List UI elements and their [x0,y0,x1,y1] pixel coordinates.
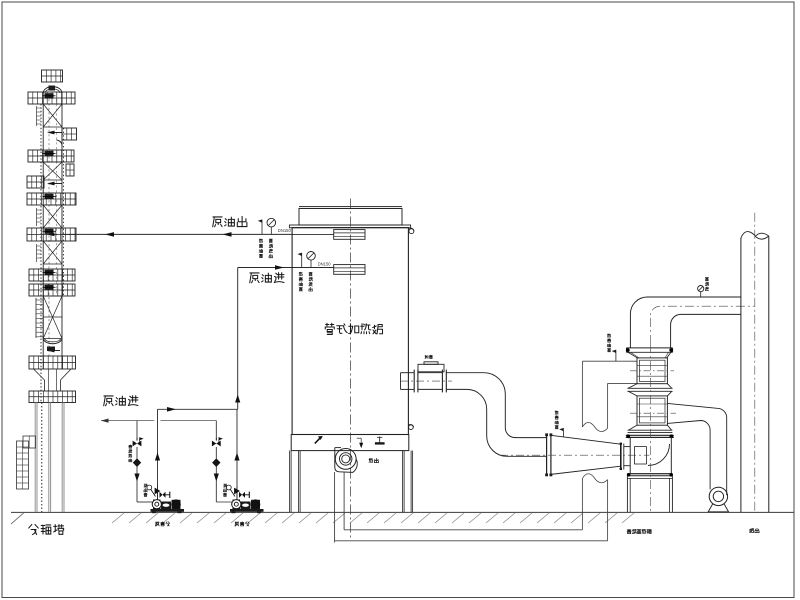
nozzle elbow hook [57,140,63,147]
pump1 discharge up arrow [155,453,160,461]
thermocouple flag on crude inlet [301,253,303,268]
column platform 3 [27,193,76,205]
flue duct horizontal centerline [500,454,650,456]
vertical tag text thermometer [269,239,272,242]
flue duct S-bend outer wall [446,373,546,438]
column ladder rungs upper [36,106,38,126]
column platform 4 [27,228,76,241]
column x-brace section 1 [43,103,62,105]
preheater upper box centerline [630,370,674,372]
temperature gauge on crude outlet [267,218,276,227]
flue duct inlet flange at preheater [620,444,622,470]
svg-text:DN150: DN150 [318,261,332,266]
pump2 suction strainer [212,458,220,467]
column ladder rungs middle [36,208,38,226]
preheater middle flange band [628,384,637,389]
furnace top flange band [289,225,410,228]
tube coil header box lower [334,265,365,275]
furnace body shell [292,228,408,435]
vertical tag text thermometer 2 [309,272,312,275]
flue duct transition flange [546,435,548,475]
base small box [23,436,36,448]
preheater upper element box [637,358,667,384]
pump1 suction drop pipe [136,421,138,441]
column platform 2 [28,150,74,162]
nozzle valve on platform 5b [45,285,54,290]
vertical tag text hot air [607,334,610,337]
vertical tag text at pump2 discharge [223,484,226,487]
vertical tag text at valve1 [129,445,132,448]
vertical tag text thermocouple 2 [299,272,303,276]
column skirt transition [34,369,45,380]
small right attachment box [66,164,74,176]
valve tag flag pump2 [219,437,223,440]
vertical tag text thermocouple [259,239,263,243]
label yan-cong chimney [750,529,754,533]
column platform 5b [29,284,75,296]
temperature gauge on flue to chimney [698,286,704,292]
bottom nozzle arrow [47,349,55,353]
crude outlet line inside furnace [293,233,334,235]
label yuan-you-jin crude oil in (furnace) [250,273,259,283]
pump2 name label [235,522,239,526]
nozzle valve on platform 1 [45,93,54,98]
column ladder rungs lower [36,244,38,262]
column x-brace section 4 [43,240,62,242]
drain tee symbol in bottom band [379,437,381,444]
label kong-qi-yu-re-qi air preheater [627,529,631,533]
nozzle valve on platform 3 [45,194,54,199]
fuel line from burner down [334,472,336,543]
pump2 discharge up arrow [234,453,239,461]
chimney centerline [754,213,756,512]
flue duct S-bend inner wall [446,389,546,456]
flue duct centerline in outlet [400,380,452,382]
air blower circles [709,487,727,505]
flow arrow crude in [275,265,284,270]
explosion door label [425,355,428,358]
flue entry lines into elbow box [624,446,630,448]
pump1 suction strainer [133,458,141,467]
hot air duct underground bottom [344,529,582,531]
label yuan-you-jin crude oil in (pumps) [104,396,113,406]
elbow turning vane arc [648,444,670,466]
pump discharge header [158,408,238,410]
cold air duct from blower bottom line [667,421,710,490]
pump1 name label [155,522,159,526]
crude inlet line inside furnace [293,267,334,269]
column base ladder dotted [41,403,43,513]
flue duct taper to preheater [551,435,621,444]
pump1 suction gate valve [133,441,142,447]
flue elbow inner wall to chimney [671,314,741,348]
flue outlet stub from furnace [401,372,415,374]
crude oil inlet pipe horizontal into furnace [238,267,293,269]
pump P-101B pressure gauge [226,485,231,490]
pump1 discharge gate valve with handle [160,492,166,498]
column ladder dotted rail left [40,104,42,402]
burner blower volute [335,448,357,473]
svg-text:DN150: DN150 [278,228,292,233]
distillation column T-101 body walls [42,92,44,369]
column x-brace section 3 [43,204,62,206]
column top dome head [43,87,62,93]
chimney top break curl [741,232,756,239]
burner label [369,459,373,463]
crude oil outlet pipe from furnace to column [62,233,293,235]
pump2 suction gate valve [212,441,221,447]
thermocouple flag on hot air duct [615,350,617,361]
base side ladder grid [17,441,29,489]
pump1 discharge riser [157,409,159,488]
tube coil header box upper [334,230,365,240]
pump2 discharge check valve [236,486,238,500]
preheater lower box centerline [630,412,676,414]
pump2 discharge gate valve with handle [239,492,245,498]
duct break wave lower [582,474,607,483]
feed nozzle arrow 1 [47,131,55,135]
flow arrow crude out near column [105,232,114,237]
pump P-101A pressure gauge [147,485,152,490]
chimney left wall [740,238,742,512]
furnace top cap [299,205,402,207]
ground hatching [112,513,634,523]
temperature gauge on crude inlet [307,252,316,261]
hot air duct right wall segments [581,478,583,529]
pump P-101B body [233,500,241,510]
pump suction header [101,420,154,422]
crude oil inlet pipe riser [237,268,239,410]
flue elbow outer wall to chimney [630,297,741,348]
preheater vertical centerline [649,344,651,512]
cold air duct from blower top line [667,403,726,495]
duct break wave upper [582,423,607,432]
flow arrow crude out [223,232,232,237]
access door rect in elbow box [635,447,647,464]
pilot arrow near burner [357,437,361,439]
pump2 discharge riser [236,409,238,488]
discharge riser up arrow [235,395,240,403]
pump P-101A body [153,500,161,510]
nozzle valve on platform 5 [45,270,54,275]
side platform right with feed nozzle [62,128,77,140]
ground line [11,511,794,513]
hot air duct into preheater [582,360,637,362]
flue duct to chimney centerline [650,306,754,344]
label guan-shi-jia-re-lu tubular heating furnace [325,323,334,334]
column platform 6 [29,356,76,369]
burner circles [335,449,356,470]
ground end tick [11,513,24,524]
thermocouple flag on crude outlet [261,220,263,235]
preheater upper transition [628,352,638,358]
column internal downcomer dashed pipe [48,99,50,356]
flue outlet flange 2 [441,370,443,393]
vertical tag text on flue duct [555,411,558,414]
furnace bottom band [291,435,409,451]
flue duct segment [418,372,443,374]
preheater bottom transition [628,425,637,430]
side platform left [27,176,44,188]
thermocouple flag on flue duct [562,428,564,437]
column x-brace section 2 [43,161,62,163]
label yuan-you-chu crude oil out [213,217,222,227]
dome top nozzle [49,86,56,91]
pump1 discharge check valve [157,486,159,500]
preheater bottom flange band [626,434,674,436]
ladder cage left of section 5 [35,298,37,338]
column platform 1 [28,92,75,104]
pump P-101B baseplate [230,509,264,512]
vertical tag text at pump1 discharge [144,484,147,487]
pump2 suction elbow into pump [216,501,232,503]
vertical tag text flue gauge [705,278,708,281]
pump2 suction flow arrow [214,474,219,482]
nozzle valve on platform 4 [45,229,54,234]
feed nozzle arrow 2 [47,182,55,186]
column base platform [29,391,76,403]
furnace bottom-right lug [409,425,414,430]
column base support columns [34,403,36,513]
damper flag in bottom band [315,437,321,444]
label fen-liu-ta distillation column [29,524,39,534]
chimney right wall [768,236,770,512]
column top platform [42,70,63,82]
furnace davit lug top right [409,229,414,234]
furnace vertical centerline [350,199,352,541]
air preheater top flange band [626,347,672,349]
nozzle valve on platform 2 [45,151,54,156]
valve tag flag pump1 [140,437,144,440]
suction header arrow [101,419,109,423]
product nozzle arrow into line [47,233,55,237]
column bottom dished head [43,339,62,344]
preheater base flange band [627,473,672,475]
furnace support legs [289,451,291,513]
preheater support base [626,476,628,512]
preheater inlet elbow box [630,437,671,473]
pump1 suction flow arrow [134,474,139,482]
flue outlet flange 1 [413,370,415,393]
preheater lower element box [637,396,667,425]
pump1 suction elbow into pump [137,501,153,503]
explosion door on flue outlet [418,364,444,372]
pump P-101A baseplate [151,509,185,512]
column ladder dotted rail right [63,128,65,296]
column x-brace tall section 5 [43,295,62,297]
air blower support [708,504,728,512]
discharge header flow arrow [167,407,176,412]
pump2 suction drop pipe [215,421,217,441]
column platform 5 [29,269,75,281]
